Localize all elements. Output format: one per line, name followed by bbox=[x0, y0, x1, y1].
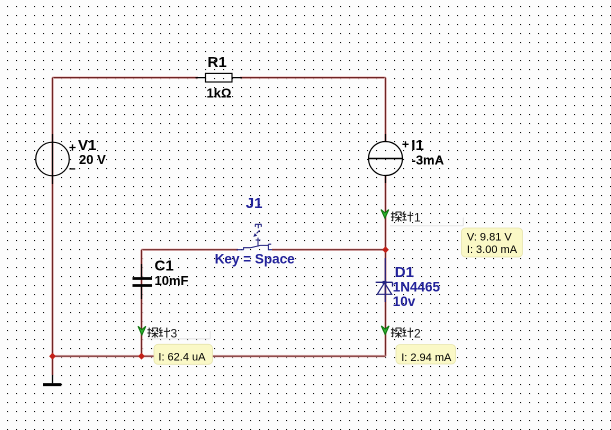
svg-text:10v: 10v bbox=[393, 294, 416, 309]
svg-text:20 V: 20 V bbox=[79, 152, 106, 167]
V1 plus marker bbox=[69, 144, 75, 150]
diode D1 junction blob bbox=[383, 281, 387, 284]
diode D1 pin wire (navy) bbox=[384, 258, 386, 302]
diode D1 triangle bbox=[377, 283, 391, 295]
probe 1 label faint outline bbox=[390, 218, 463, 226]
wire right vertical upper (top wire to I1) bbox=[384, 78, 387, 142]
probe 1 text bbox=[391, 210, 421, 224]
probe 2 text bbox=[391, 326, 421, 340]
current source I1 internal bar bbox=[369, 158, 403, 160]
wire ground stub bbox=[51, 356, 54, 375]
resistor R1 body bbox=[206, 73, 233, 82]
wire bottom bbox=[53, 355, 386, 358]
ground symbol bbox=[52, 375, 54, 383]
probe 3 text bbox=[147, 326, 177, 340]
probe 3 label faint outline bbox=[147, 331, 210, 339]
current source I1 circle bbox=[369, 142, 403, 176]
wire top left segment (V1 to R1) bbox=[53, 76, 199, 79]
svg-text:I: 62.4 uA: I: 62.4 uA bbox=[158, 351, 206, 363]
wire left vertical (V1 branch) bbox=[51, 78, 54, 357]
voltage source V1 internal wire bbox=[52, 134, 54, 184]
capacitor C1 plates bbox=[133, 279, 153, 286]
wire top right segment (R1 to I1) bbox=[240, 76, 386, 79]
junction dot at switch/I1 branch bbox=[382, 246, 389, 253]
svg-text:V: 9.81 V: V: 9.81 V bbox=[467, 232, 513, 244]
capacitor C1 pins bbox=[141, 264, 143, 299]
wire switch horizontal right segment bbox=[272, 248, 386, 251]
switch J1 body (blade and contacts) bbox=[237, 244, 273, 250]
resistor R1 pins bbox=[196, 77, 243, 79]
probe 2 arrow bbox=[381, 326, 389, 335]
voltage source V1 circle bbox=[36, 142, 70, 176]
probe 3 arrow bbox=[138, 326, 146, 335]
svg-text:3: 3 bbox=[171, 326, 178, 340]
svg-text:1N4465: 1N4465 bbox=[393, 279, 441, 294]
svg-text:2: 2 bbox=[414, 326, 421, 340]
svg-text:R1: R1 bbox=[208, 54, 227, 71]
svg-text:Key = Space: Key = Space bbox=[215, 252, 295, 267]
svg-text:1: 1 bbox=[414, 210, 421, 224]
switch J1 actuator dashed arrow bbox=[257, 230, 260, 233]
junction dot at V1/bottom wire bbox=[49, 353, 56, 360]
diode D1 cathode bar with zener hook bbox=[376, 282, 393, 286]
svg-text:C1: C1 bbox=[155, 258, 174, 275]
current source I1 pins bbox=[385, 134, 387, 183]
I1 plus marker bbox=[402, 141, 408, 147]
V1 minus marker bbox=[69, 168, 75, 170]
junction dot at C1/bottom wire bbox=[138, 353, 145, 360]
wire switch horizontal left segment bbox=[142, 248, 239, 251]
svg-text:1kΩ: 1kΩ bbox=[207, 85, 232, 100]
switch J1 actuator T-bar bbox=[255, 224, 261, 228]
measurement box probe1 (V/I readout) bbox=[462, 228, 523, 257]
svg-text:-3mA: -3mA bbox=[412, 152, 445, 167]
svg-text:10mF: 10mF bbox=[155, 273, 189, 288]
svg-text:J1: J1 bbox=[246, 195, 263, 212]
wire right vertical lower (I1 to bottom) bbox=[384, 176, 387, 357]
wire C1 branch vertical bbox=[140, 250, 143, 357]
measurement box probe3 (I readout) bbox=[154, 344, 213, 364]
svg-text:I: 2.94 mA: I: 2.94 mA bbox=[401, 352, 452, 364]
probe 1 arrow bbox=[381, 210, 389, 219]
switch J1 contact post bbox=[256, 238, 261, 247]
svg-text:I: 3.00 mA: I: 3.00 mA bbox=[467, 244, 518, 256]
measurement box probe2 (I readout) bbox=[396, 345, 456, 365]
switch J1 actuator arrowhead bbox=[253, 233, 257, 237]
